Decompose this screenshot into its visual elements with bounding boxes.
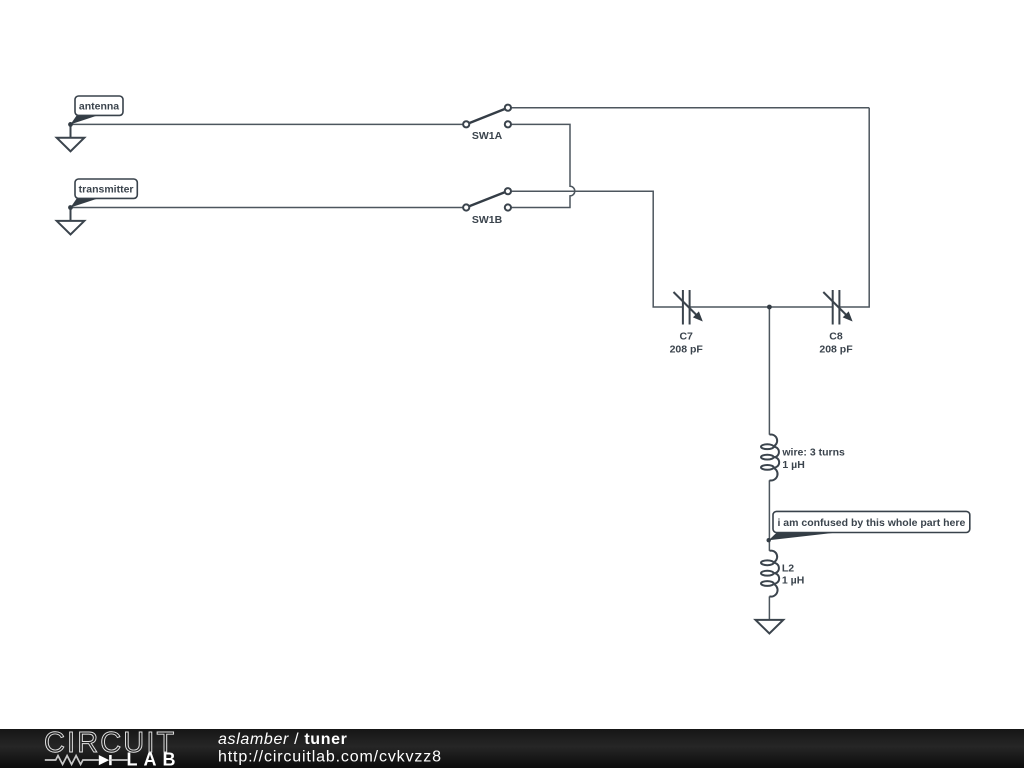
wire L2 to ground	[768, 596, 770, 619]
node junction dot between C7 and C8	[767, 305, 772, 310]
svg-text:transmitter: transmitter	[79, 184, 134, 196]
wire right vertical down to C8	[839, 108, 869, 307]
wire SW1B top contact to C7	[511, 191, 683, 307]
node dot (confused callout)	[767, 538, 771, 542]
wire antenna to SW1A	[71, 123, 464, 125]
wire node down to L1	[768, 307, 770, 435]
svg-text:SW1A: SW1A	[472, 130, 503, 142]
node dot (antenna)	[68, 122, 73, 127]
callout "antenna"	[71, 96, 124, 124]
svg-text:1 µH: 1 µH	[782, 575, 804, 587]
node dot (transmitter)	[68, 205, 73, 210]
switch SW1B	[463, 188, 511, 226]
wire C7 to node	[690, 306, 770, 308]
wire SW1A bottom contact to vertical with hop over SW1B wire	[511, 124, 575, 207]
switch SW1A	[463, 105, 511, 143]
wire node to C8	[769, 306, 832, 308]
svg-text:wire: 3 turns: wire: 3 turns	[781, 447, 845, 459]
ground (transmitter)	[57, 208, 85, 235]
wire SW1A top contact to top-right corner	[511, 107, 869, 109]
callout "i am confused by this whole part here"	[769, 511, 970, 540]
ground (below L2)	[756, 620, 784, 634]
svg-text:1 µH: 1 µH	[782, 459, 804, 471]
svg-text:C8: C8	[829, 330, 843, 342]
ground (antenna)	[57, 124, 85, 151]
inductor L1 (wire: 3 turns)	[761, 434, 845, 480]
svg-text:antenna: antenna	[79, 101, 119, 113]
svg-text:http://circuitlab.com/cvkvzz8: http://circuitlab.com/cvkvzz8	[218, 749, 442, 766]
wire L1 to L2	[768, 480, 770, 551]
variable capacitor C7	[670, 290, 704, 355]
svg-text:C7: C7	[679, 330, 693, 342]
svg-text:aslamber / tuner: aslamber / tuner	[218, 731, 348, 748]
svg-text:SW1B: SW1B	[472, 214, 503, 226]
inductor L2	[761, 551, 804, 597]
footer bar	[0, 729, 1024, 768]
callout "transmitter"	[71, 179, 138, 208]
svg-text:L2: L2	[782, 562, 794, 574]
wire transmitter to SW1B	[71, 207, 464, 209]
variable capacitor C8	[819, 290, 853, 355]
logo resistor-diode symbol	[45, 755, 128, 765]
svg-text:208 pF: 208 pF	[670, 343, 704, 355]
svg-text:208 pF: 208 pF	[819, 343, 853, 355]
svg-text:i am confused by this whole pa: i am confused by this whole part here	[777, 517, 965, 529]
svg-text:LAB: LAB	[127, 749, 182, 768]
